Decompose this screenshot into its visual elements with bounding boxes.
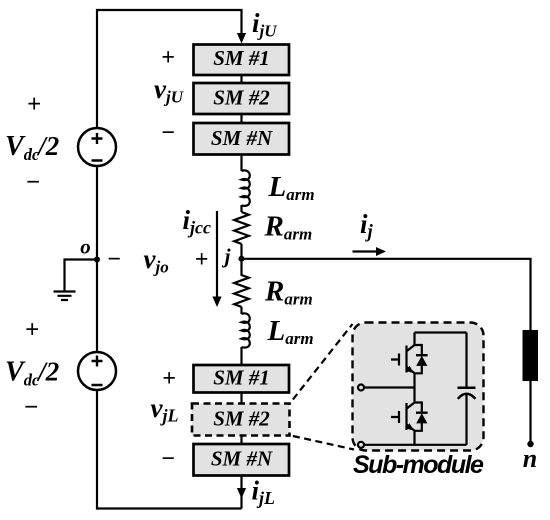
wire: lower stack to bottom bus (240, 476, 242, 509)
wire: resistor-inductor (lower) (240, 307, 242, 314)
wire: SM1-SM2 (upper) (240, 75, 242, 83)
svg-text:SM #2: SM #2 (213, 407, 270, 431)
submodule SM #1 (upper arm) (194, 45, 290, 76)
capacitor C (sub-module) (458, 333, 476, 445)
sub-module inset box (353, 323, 484, 451)
wire: inset top rail (415, 331, 467, 333)
wire: SM2-SMN (lower) (240, 436, 242, 445)
dashed zoom line (upper) from SM#2 to inset (293, 324, 353, 400)
node j dot (239, 256, 245, 262)
svg-text:SM #N: SM #N (211, 447, 273, 471)
wire: node j to right branch (242, 259, 531, 330)
voltage source upper Vdc/2 (78, 128, 116, 166)
wire: SMN to upper inductor (240, 155, 242, 172)
wire: inductor-resistor (upper) (240, 205, 242, 212)
inductor L_arm (upper) (242, 170, 250, 206)
svg-text:SM #2: SM #2 (213, 86, 270, 110)
ground symbol (54, 292, 76, 301)
terminal (upper, open circle) (358, 385, 364, 391)
node o dot (94, 257, 100, 263)
wire: inductor to lower stack (240, 347, 242, 365)
dashed zoom line (lower) from SM#2 to inset (293, 436, 354, 450)
wire: bottom bus from lower source to lower arm (97, 390, 242, 509)
wire: ground branch (65, 260, 98, 291)
svg-text:+: + (161, 45, 175, 71)
wire: SM2-SMN (upper) (240, 114, 242, 123)
arrow i_jL (237, 488, 246, 499)
svg-text:−: − (107, 247, 122, 273)
svg-text:−: − (161, 446, 176, 472)
svg-text:n: n (523, 444, 537, 473)
IGBT T2 (lower) with diode (391, 388, 428, 446)
wire: inset bottom rail (364, 444, 467, 446)
svg-text:Sub-module: Sub-module (353, 451, 484, 479)
wire: load to node n (529, 381, 531, 444)
svg-text:+: + (162, 366, 176, 392)
inductor L_arm (lower) (242, 313, 250, 347)
arrow i_jcc (circulating current) (216, 211, 218, 297)
svg-text:−: − (161, 120, 176, 146)
resistor R_arm (lower) (234, 259, 249, 307)
wire: inset mid lead (364, 386, 415, 388)
submodule SM #N (upper arm) (194, 123, 290, 155)
wire: SM1-SM2 (lower) (240, 393, 242, 404)
wire: resistor to node j (240, 244, 242, 259)
IGBT T1 (upper) with diode (391, 333, 428, 388)
svg-text:o: o (80, 235, 91, 259)
svg-text:+: + (195, 247, 209, 273)
svg-text:−: − (25, 169, 40, 196)
submodule SM #2 (lower arm, dashed highlight) (192, 404, 290, 436)
svg-text:SM #1: SM #1 (213, 366, 270, 390)
svg-text:SM #N: SM #N (211, 126, 273, 150)
svg-text:SM #1: SM #1 (213, 46, 270, 70)
wire: top bus from left rail to upper arm (97, 10, 242, 129)
submodule SM #1 (lower arm) (194, 365, 290, 393)
arrow i_j (353, 250, 378, 252)
load impedance (black bar) (523, 330, 539, 381)
svg-text:+: + (25, 317, 39, 344)
voltage source lower Vdc/2 (78, 352, 116, 390)
submodule SM #N (lower arm) (194, 444, 290, 476)
svg-text:−: − (23, 394, 38, 421)
node n dot (527, 441, 533, 447)
submodule SM #2 (upper arm) (194, 83, 290, 114)
terminal (lower, open circle) (358, 442, 364, 448)
svg-text:+: + (27, 91, 41, 118)
resistor R_arm (upper) (234, 212, 249, 244)
wire: left rail between sources (96, 166, 98, 352)
arrow i_jU (into upper arm) (237, 33, 246, 44)
